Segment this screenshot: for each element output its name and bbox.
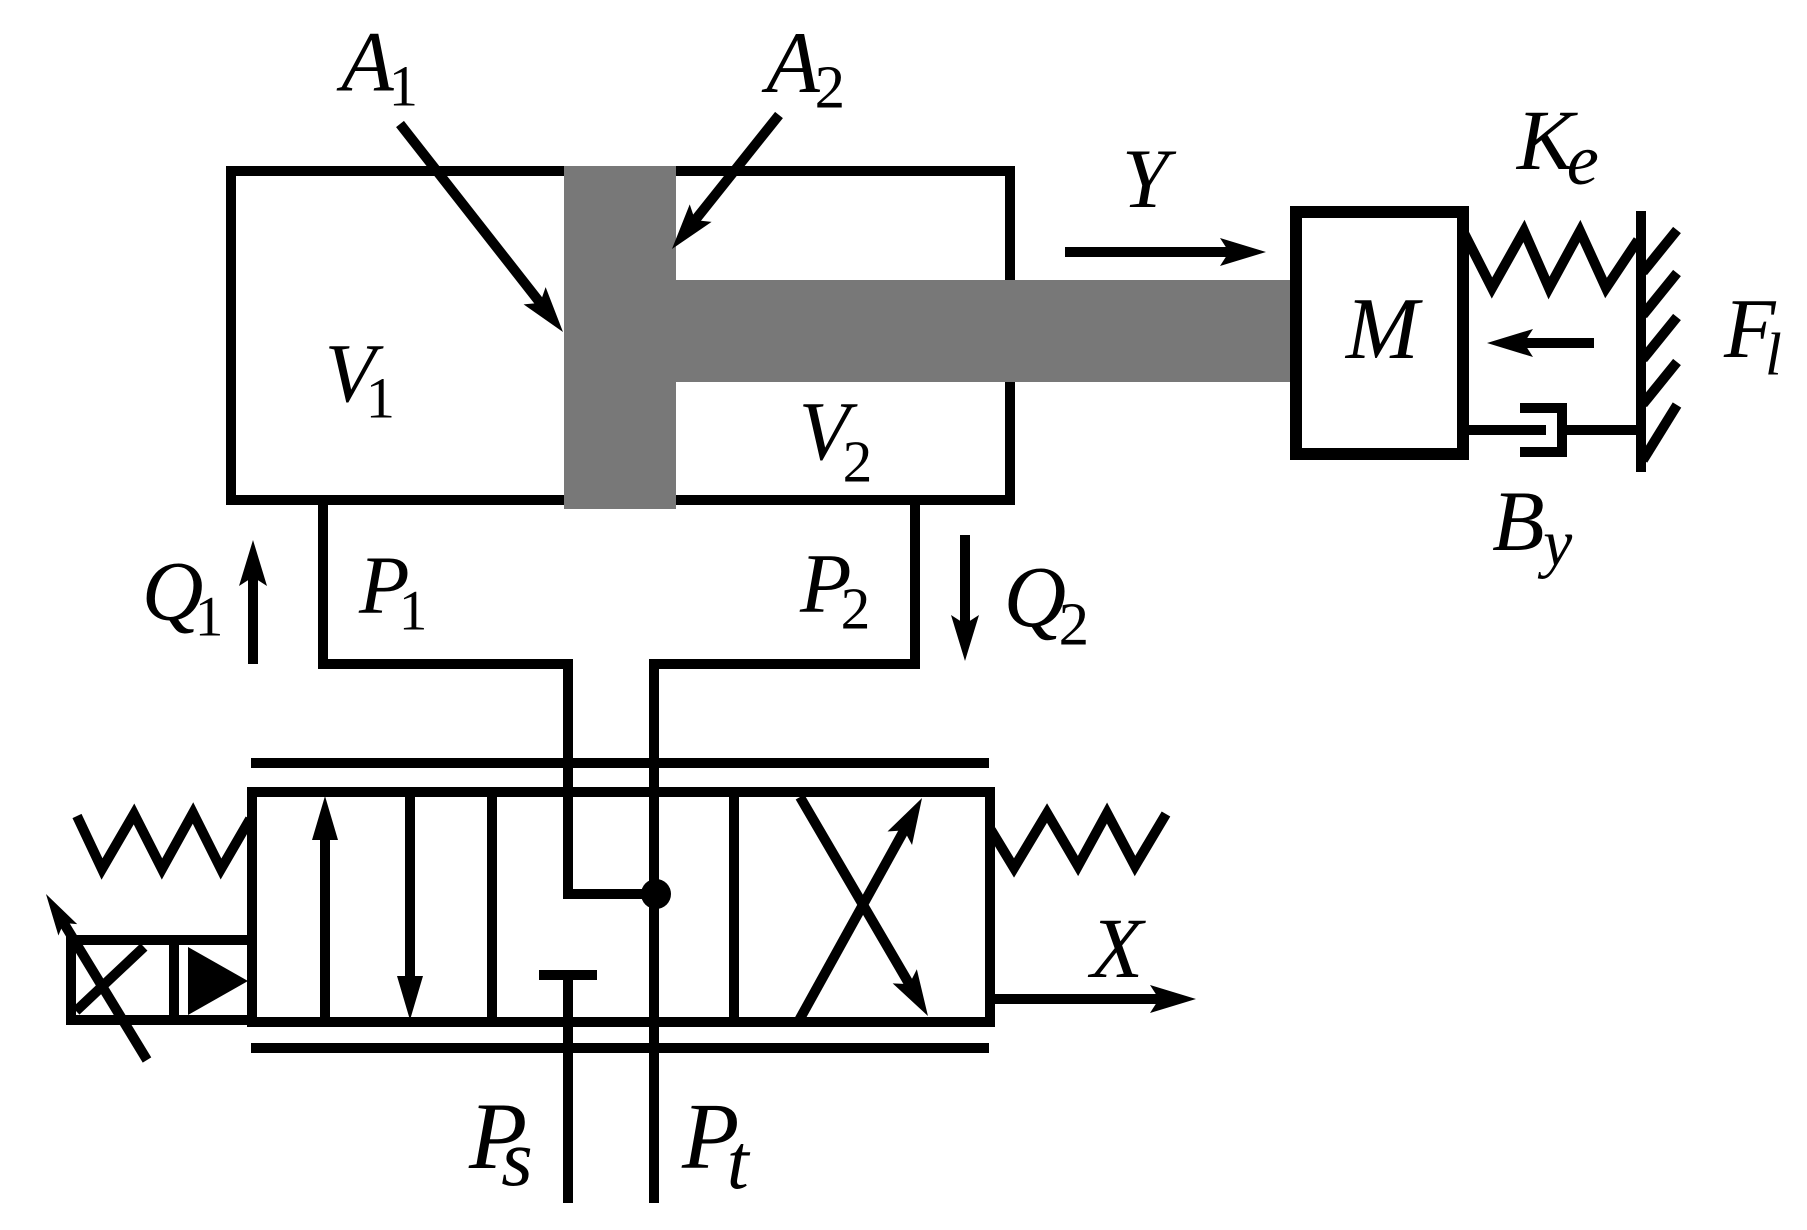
arrow Y xyxy=(1065,247,1231,257)
valve envelope bottom xyxy=(251,1043,989,1053)
port P2 line xyxy=(654,495,915,1203)
damper By: cup xyxy=(1520,408,1562,452)
svg-text:A: A xyxy=(761,14,820,111)
solenoid divider xyxy=(169,940,179,1020)
arrow Q1 xyxy=(248,575,258,664)
arrow Fl xyxy=(1522,338,1594,348)
spring Ke xyxy=(1464,231,1638,288)
svg-text:1: 1 xyxy=(399,580,427,643)
valve right box crossed arrows xyxy=(797,829,905,1024)
valve envelope top xyxy=(251,758,989,768)
solenoid proportional arrow xyxy=(63,921,147,1060)
valve divider 1 xyxy=(487,792,497,1022)
svg-text:1: 1 xyxy=(389,54,418,119)
svg-text:l: l xyxy=(1765,322,1782,389)
solenoid cell diagonal xyxy=(76,947,144,1011)
valve left spring xyxy=(77,813,250,869)
valve divider 2 xyxy=(729,792,739,1022)
svg-text:A: A xyxy=(336,14,394,110)
wall xyxy=(1636,211,1646,472)
svg-text:Y: Y xyxy=(1122,133,1177,226)
arrow X xyxy=(990,994,1161,1004)
solenoid triangle xyxy=(188,947,248,1015)
arrow A2 xyxy=(694,115,779,222)
damper By: rod xyxy=(1463,425,1546,435)
svg-text:2: 2 xyxy=(841,576,871,642)
svg-text:2: 2 xyxy=(815,55,845,122)
damper By: link to wall xyxy=(1562,425,1641,435)
piston rod (gray) xyxy=(676,280,1296,382)
Ps blocked port xyxy=(539,970,597,980)
arrow A1 xyxy=(400,124,541,304)
svg-text:1: 1 xyxy=(195,586,223,649)
junction dot xyxy=(641,879,671,909)
valve right spring xyxy=(991,813,1166,868)
mass M xyxy=(1296,212,1463,454)
valve body xyxy=(252,792,990,1022)
arrow Q2 xyxy=(960,535,970,626)
svg-text:1: 1 xyxy=(366,366,395,431)
piston (gray) xyxy=(564,166,676,509)
svg-text:2: 2 xyxy=(1059,592,1089,659)
svg-text:M: M xyxy=(1344,280,1423,377)
svg-text:2: 2 xyxy=(843,429,873,495)
svg-text:X: X xyxy=(1088,900,1147,996)
svg-text:y: y xyxy=(1537,508,1572,580)
svg-text:s: s xyxy=(501,1114,532,1203)
svg-text:B: B xyxy=(1492,473,1544,569)
svg-text:t: t xyxy=(727,1119,751,1206)
port P1 line xyxy=(323,495,656,894)
solenoid box xyxy=(71,940,252,1020)
svg-text:Q: Q xyxy=(1004,549,1066,645)
wall hatching xyxy=(1643,230,1677,272)
valve left box down arrow xyxy=(405,792,415,980)
svg-text:e: e xyxy=(1567,120,1599,200)
valve left box up arrow xyxy=(320,836,330,1022)
cylinder body xyxy=(231,171,1010,500)
